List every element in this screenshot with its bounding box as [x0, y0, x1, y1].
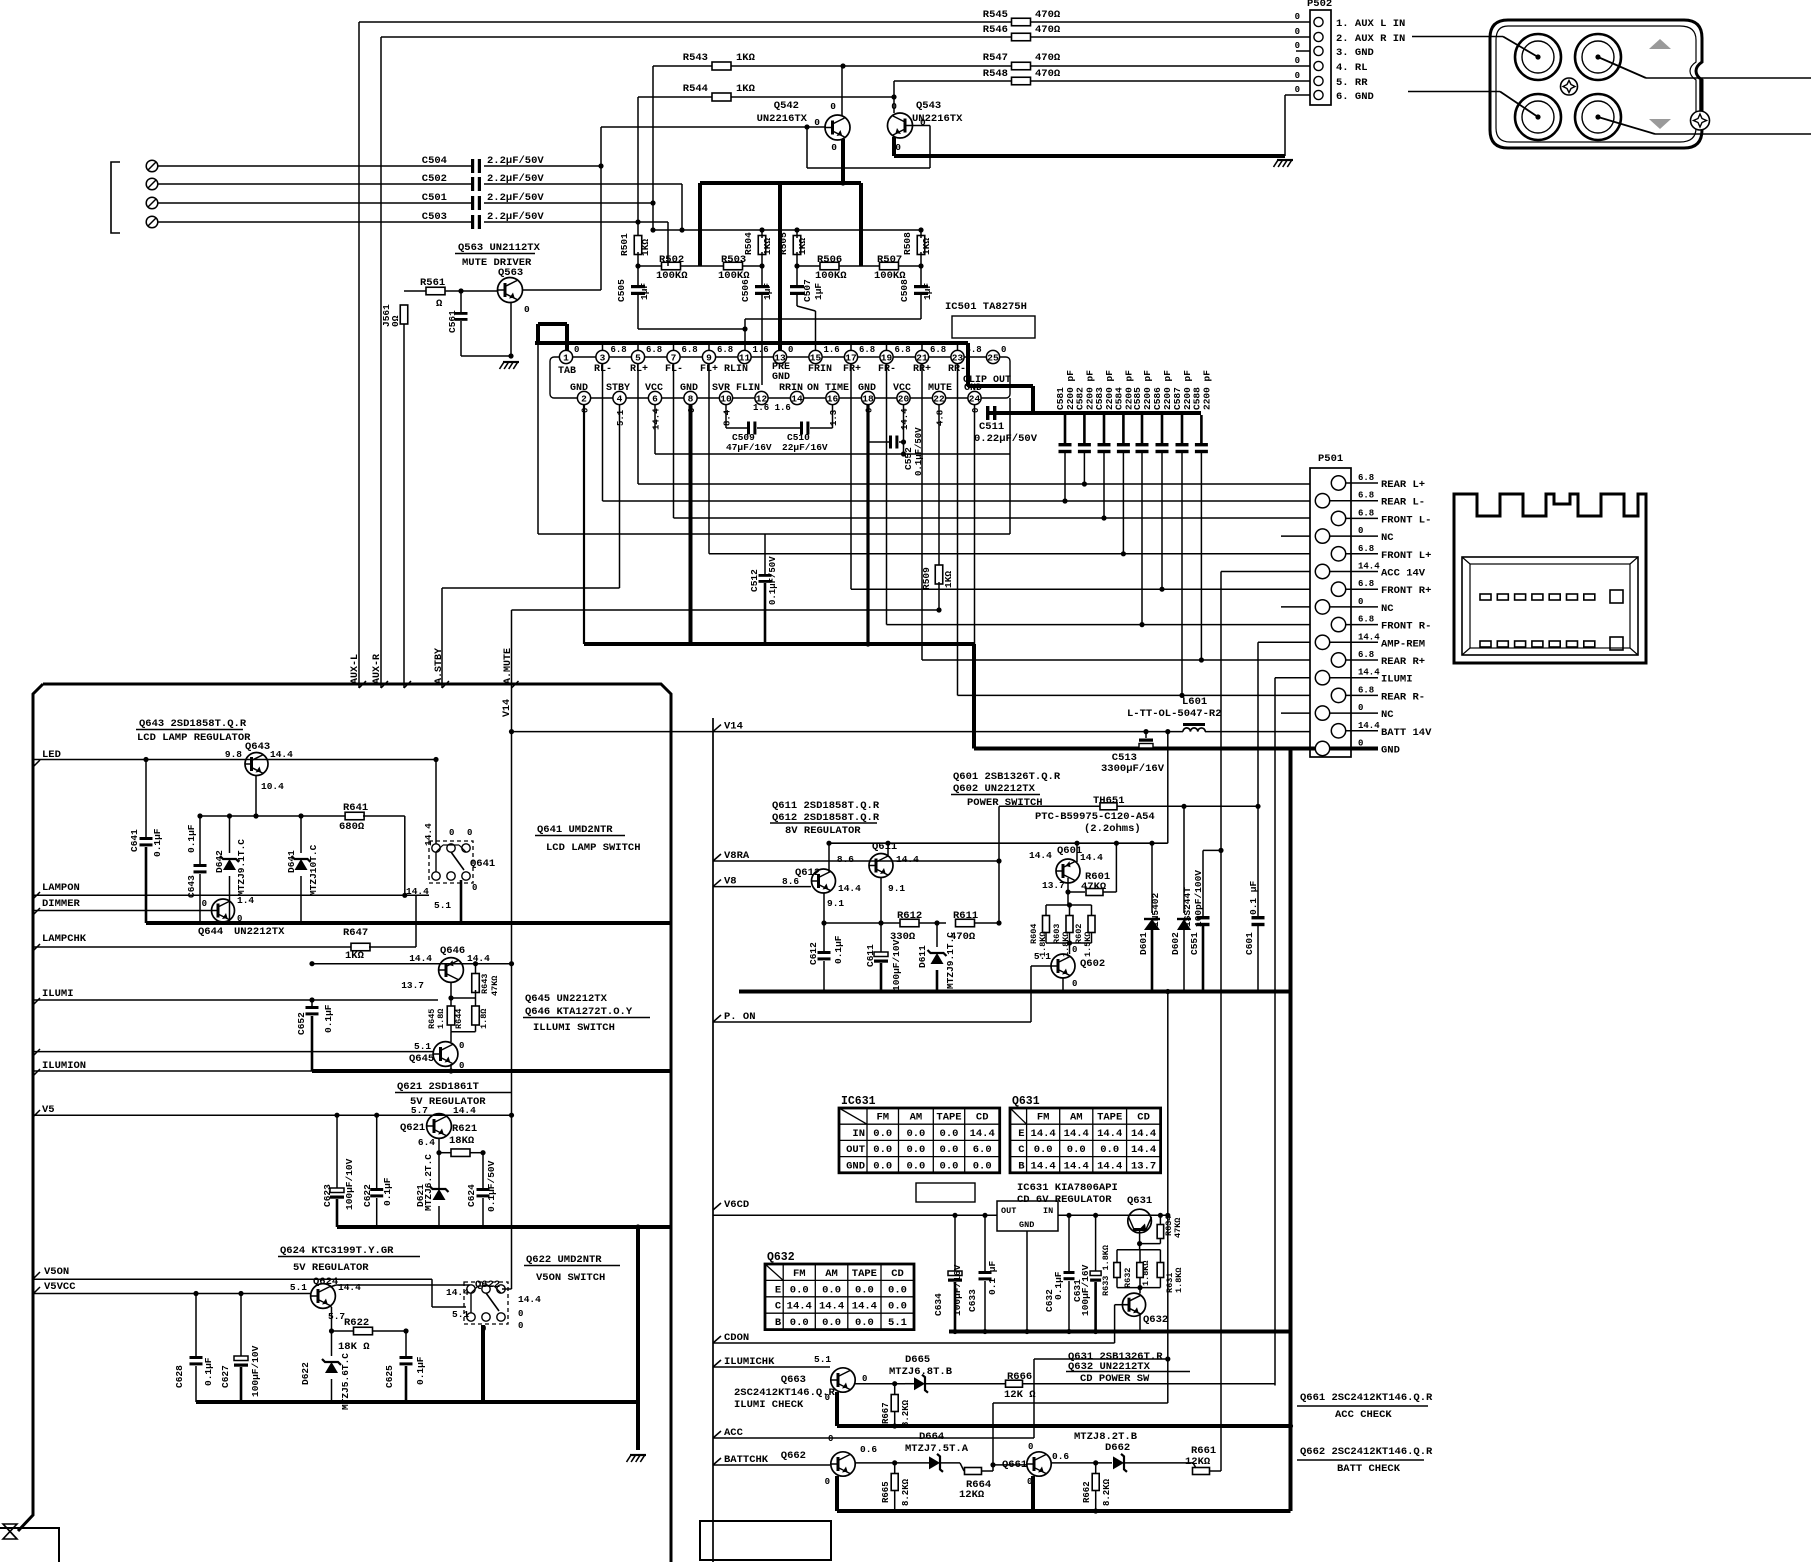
car connector pin [1532, 641, 1543, 647]
svg-text:470Ω: 470Ω [1035, 68, 1061, 80]
svg-text:14.4: 14.4 [518, 1294, 541, 1305]
transistor Q611 [869, 854, 893, 878]
svg-text:1KΩ: 1KΩ [736, 52, 756, 64]
svg-text:8.4: 8.4 [723, 409, 733, 426]
svg-text:Q611 2SD1858T.Q.R: Q611 2SD1858T.Q.R [772, 800, 880, 812]
svg-text:0: 0 [971, 408, 981, 413]
svg-text:C552: C552 [903, 447, 914, 470]
svg-text:470Ω: 470Ω [1035, 9, 1061, 21]
svg-text:2200 pF: 2200 pF [1201, 370, 1212, 410]
svg-text:14.4: 14.4 [270, 749, 293, 760]
svg-text:LCD LAMP REGULATOR: LCD LAMP REGULATOR [137, 732, 251, 744]
svg-text:0.0: 0.0 [873, 1144, 892, 1156]
svg-text:D662: D662 [1105, 1442, 1130, 1454]
svg-text:9.8: 9.8 [225, 749, 242, 760]
pin 12 [755, 391, 768, 404]
svg-text:MTZJ6.8T.B: MTZJ6.8T.B [889, 1366, 953, 1378]
svg-text:0.0: 0.0 [873, 1128, 892, 1140]
resistor R645 [450, 998, 452, 1008]
svg-text:ILLUMI SWITCH: ILLUMI SWITCH [533, 1022, 615, 1034]
wire Q645 emitter [450, 1064, 452, 1071]
switch Q622 [464, 1282, 508, 1324]
diode D641 [300, 816, 302, 853]
wire Q645 collector [450, 1032, 452, 1042]
svg-text:5.7: 5.7 [411, 1105, 428, 1116]
wire Q624 collector [330, 1285, 336, 1287]
wire Q641 bottom [460, 880, 463, 923]
capacitor C624 [482, 1153, 484, 1188]
wire thick GND riser [972, 644, 976, 749]
svg-text:6.8: 6.8 [646, 345, 662, 355]
wire thick ILUMION bus [312, 1069, 671, 1073]
svg-text:11: 11 [739, 352, 751, 363]
svg-text:C622: C622 [362, 1184, 373, 1207]
transistor Q646 [439, 958, 464, 983]
RCA pointer bottom-left [1500, 92, 1538, 118]
svg-text:0: 0 [1358, 703, 1363, 713]
wire thick CD gnd bus [949, 1330, 1291, 1334]
wire output fan [886, 364, 888, 625]
switch Q641 [429, 841, 473, 883]
capacitor C504 [471, 159, 474, 173]
wire thick drop x780 (PRE GND) [778, 183, 782, 351]
svg-text:0.0: 0.0 [1067, 1144, 1086, 1156]
svg-text:5.1: 5.1 [1034, 951, 1051, 962]
connector P501 pin 8 [1315, 600, 1329, 614]
ic IC501 thick top rail [535, 341, 968, 345]
wire pin stub [637, 343, 639, 351]
svg-text:C601: C601 [1244, 932, 1255, 955]
svg-text:R641: R641 [343, 802, 368, 814]
regulator IC631 box [997, 1201, 1058, 1231]
diode D601 [1151, 843, 1153, 913]
capacitor C631 [1095, 1215, 1097, 1271]
svg-text:R507: R507 [877, 254, 902, 266]
svg-text:C551: C551 [1189, 932, 1200, 955]
input terminal 4 [146, 216, 158, 228]
capacitor C641 [145, 760, 147, 838]
svg-text:0: 0 [449, 828, 454, 838]
wire GND to RCA [1408, 91, 1500, 93]
svg-text:C507: C507 [802, 279, 813, 302]
svg-text:ILUMION: ILUMION [42, 1060, 86, 1072]
svg-text:B: B [1018, 1160, 1025, 1172]
wire C501 out [485, 202, 653, 204]
svg-text:GND: GND [1381, 745, 1400, 757]
svg-text:NC: NC [1381, 603, 1394, 615]
svg-text:0: 0 [459, 1041, 464, 1051]
svg-text:5.1: 5.1 [814, 1354, 831, 1365]
net AUX-L vertical [358, 22, 360, 688]
svg-text:0.1µF: 0.1µF [415, 1356, 426, 1385]
box edge middle section [712, 718, 714, 1562]
svg-text:0: 0 [828, 1434, 833, 1444]
svg-text:14.4: 14.4 [446, 1287, 469, 1298]
svg-text:Ω: Ω [436, 298, 443, 310]
svg-text:18K Ω: 18K Ω [338, 1341, 370, 1353]
svg-text:0.6: 0.6 [1052, 1451, 1069, 1462]
svg-text:8.6: 8.6 [837, 854, 854, 865]
car connector pin [1515, 641, 1526, 647]
svg-text:R546: R546 [983, 24, 1008, 36]
svg-text:Q631: Q631 [1012, 1095, 1040, 1108]
svg-text:R612: R612 [897, 910, 922, 922]
svg-text:Q643 2SD1858T.Q.R: Q643 2SD1858T.Q.R [139, 718, 247, 730]
pin 10 [719, 391, 732, 404]
svg-text:0.0: 0.0 [855, 1317, 874, 1329]
net A.STBY [441, 588, 443, 688]
svg-text:12KΩ: 12KΩ [959, 1489, 985, 1501]
net ACC entry [713, 1431, 721, 1438]
resistor R667 [894, 1384, 896, 1395]
capacitor C634 [954, 1215, 956, 1271]
svg-text:0: 0 [788, 345, 793, 355]
label IC631 [916, 1183, 975, 1202]
svg-text:14.4: 14.4 [1031, 1160, 1056, 1172]
svg-text:1.6 1.6: 1.6 1.6 [753, 403, 791, 413]
svg-text:18: 18 [862, 393, 874, 404]
wire Q602 emitter [1062, 978, 1064, 992]
svg-text:1KΩ: 1KΩ [762, 238, 773, 255]
svg-text:1N5402: 1N5402 [1150, 892, 1161, 927]
svg-text:14.4: 14.4 [409, 953, 432, 964]
net CDON entry [713, 1336, 721, 1343]
svg-text:AM: AM [910, 1112, 923, 1124]
svg-text:C652: C652 [296, 1012, 307, 1035]
svg-text:ILUMI: ILUMI [1381, 674, 1413, 686]
svg-text:5.1: 5.1 [452, 1309, 469, 1320]
wire output fan [921, 364, 923, 660]
svg-text:2.2µF/50V: 2.2µF/50V [487, 211, 544, 223]
wire [920, 252, 922, 285]
svg-text:ACC: ACC [724, 1427, 744, 1439]
wire pin stub [850, 343, 852, 351]
svg-text:OUT: OUT [846, 1144, 865, 1156]
resistor R508 [917, 236, 925, 255]
svg-text:E: E [1018, 1128, 1024, 1140]
svg-text:IC631: IC631 [841, 1095, 876, 1108]
svg-text:6. GND: 6. GND [1336, 91, 1374, 103]
svg-text:LAMPCHK: LAMPCHK [42, 933, 87, 945]
transistor Q661 [1027, 1452, 1051, 1476]
svg-text:1KΩ: 1KΩ [921, 238, 932, 255]
svg-text:Q641: Q641 [470, 858, 495, 870]
svg-text:14.4: 14.4 [819, 1301, 844, 1313]
svg-text:FRONT L+: FRONT L+ [1381, 550, 1431, 562]
svg-text:0.0: 0.0 [906, 1160, 925, 1172]
svg-text:V8RA: V8RA [724, 850, 750, 862]
svg-text:V8: V8 [724, 876, 737, 888]
connector P501 pin 10 [1315, 635, 1329, 649]
wire [484, 221, 485, 223]
svg-text:12KΩ: 12KΩ [1185, 1456, 1211, 1468]
svg-text:24: 24 [969, 393, 981, 404]
svg-text:Q662: Q662 [781, 1450, 806, 1462]
svg-text:2.2µF/50V: 2.2µF/50V [487, 192, 544, 204]
svg-text:BATT 14V: BATT 14V [1381, 727, 1432, 739]
pin 17 [844, 350, 857, 363]
wire 14.4 rail [312, 963, 512, 965]
svg-text:Q663: Q663 [781, 1374, 806, 1386]
wire pin10 SVR loop [725, 404, 727, 428]
wire output fan [957, 364, 959, 695]
svg-text:7: 7 [671, 352, 677, 363]
net V8RA entry [713, 854, 721, 861]
resistor R544 [638, 96, 712, 98]
svg-text:P502: P502 [1307, 0, 1332, 10]
wire pin stub [921, 343, 923, 351]
svg-text:C634: C634 [933, 1293, 944, 1316]
svg-text:0.1µF: 0.1µF [1053, 1271, 1064, 1300]
svg-text:1.4: 1.4 [237, 895, 254, 906]
car connector pin [1584, 594, 1595, 600]
wire [637, 97, 639, 238]
svg-text:Q624 KTC3199T.Y.GR: Q624 KTC3199T.Y.GR [280, 1245, 394, 1257]
wire thick bottom bus [837, 1509, 1291, 1513]
svg-text:14.4: 14.4 [970, 1128, 995, 1140]
wire Q621 emitter [438, 1138, 440, 1188]
pin 1 [559, 350, 572, 363]
svg-text:C505: C505 [616, 279, 627, 302]
wire ACC entry [713, 1437, 1034, 1439]
connector P501 pin 1 [1331, 476, 1345, 490]
svg-text:6.8: 6.8 [966, 345, 982, 355]
svg-text:C641: C641 [129, 829, 140, 852]
svg-text:IN: IN [852, 1128, 865, 1140]
car connector pin [1584, 641, 1595, 647]
svg-text:8.2KΩ: 8.2KΩ [901, 1478, 911, 1506]
svg-text:0: 0 [1028, 1442, 1033, 1452]
svg-text:13.7: 13.7 [1042, 880, 1065, 891]
wire Q601 collector [1076, 843, 1078, 862]
wire AMP-REM [1258, 641, 1310, 643]
svg-text:R502: R502 [659, 254, 684, 266]
svg-text:0.1µF: 0.1µF [203, 1357, 214, 1386]
wire [158, 183, 471, 185]
svg-text:14.4: 14.4 [1131, 1144, 1156, 1156]
svg-text:BATTCHK: BATTCHK [724, 1454, 769, 1466]
capacitor C625 [405, 1331, 407, 1356]
svg-text:14.4: 14.4 [423, 823, 434, 846]
svg-text:FM: FM [876, 1112, 889, 1124]
svg-text:AM: AM [825, 1268, 838, 1280]
resistor R505 [793, 236, 801, 255]
svg-text:0.0: 0.0 [822, 1284, 841, 1296]
svg-text:14.4: 14.4 [1358, 632, 1380, 642]
pin 18 [861, 391, 874, 404]
car connector pin [1497, 641, 1508, 647]
svg-text:6.8: 6.8 [1358, 615, 1374, 625]
svg-text:1µF: 1µF [922, 283, 933, 300]
svg-text:0: 0 [891, 101, 897, 112]
svg-text:14.4: 14.4 [1358, 562, 1380, 572]
svg-text:100µF/10V: 100µF/10V [891, 939, 902, 991]
svg-text:0: 0 [1295, 41, 1300, 51]
RCA jack [1575, 94, 1621, 140]
svg-text:IN: IN [1043, 1206, 1053, 1216]
svg-text:0: 0 [467, 828, 472, 838]
connector P501 pin 5 [1331, 547, 1345, 561]
wire output fan [602, 364, 604, 501]
svg-text:Q643: Q643 [245, 741, 270, 753]
svg-text:TAPE: TAPE [1097, 1112, 1122, 1124]
svg-text:14.4: 14.4 [453, 1105, 476, 1116]
capacitor C561 [460, 291, 462, 312]
wire thick GND drop right [1289, 749, 1293, 992]
svg-text:Q644: Q644 [198, 926, 223, 938]
capacitor C582 [1083, 415, 1086, 443]
wire pin stub [673, 343, 675, 351]
svg-text:2. AUX R IN: 2. AUX R IN [1336, 33, 1405, 45]
net BATTCHK entry [713, 1458, 721, 1465]
wire thick 5V gnd bus [337, 1225, 671, 1229]
pin 4 [613, 391, 626, 404]
svg-text:8.2KΩ: 8.2KΩ [901, 1399, 911, 1427]
svg-text:5.1: 5.1 [434, 900, 451, 911]
svg-text:NC: NC [1381, 532, 1394, 544]
title box bottom center [700, 1521, 831, 1560]
svg-text:0: 0 [1295, 27, 1300, 37]
wire x1167 lower [1167, 992, 1169, 1404]
svg-text:MTZJ9.1T.C: MTZJ9.1T.C [945, 932, 956, 989]
svg-text:BATT CHECK: BATT CHECK [1337, 1463, 1401, 1475]
wire [1205, 731, 1310, 733]
screw center [1561, 78, 1578, 95]
svg-text:22: 22 [933, 393, 945, 404]
capacitor C588 [1200, 415, 1203, 443]
resistor group R633 R632 R631 [1117, 1249, 1160, 1251]
svg-text:4: 4 [617, 393, 623, 404]
svg-text:0: 0 [518, 1321, 523, 1331]
svg-text:Q542: Q542 [774, 100, 799, 112]
svg-text:D622: D622 [300, 1362, 311, 1385]
capacitor C601 [1257, 806, 1259, 916]
capacitor C584 [1122, 415, 1125, 443]
wire [158, 202, 471, 204]
svg-text:C628: C628 [174, 1365, 185, 1388]
svg-text:Q646: Q646 [440, 945, 465, 957]
svg-text:0.1µF: 0.1µF [833, 935, 844, 964]
svg-text:0: 0 [830, 101, 836, 112]
ground [630, 1454, 646, 1456]
pin 22 [932, 391, 945, 404]
resistor R611 [956, 919, 975, 927]
svg-text:D611: D611 [917, 945, 928, 968]
capacitor C502 [471, 177, 474, 191]
svg-text:14.4: 14.4 [1031, 1128, 1056, 1140]
svg-text:0: 0 [1358, 597, 1363, 607]
svg-text:5V REGULATOR: 5V REGULATOR [293, 1262, 369, 1274]
svg-text:D664: D664 [919, 1431, 944, 1443]
resistor R664 [960, 1463, 964, 1471]
wire thick staircase [538, 322, 567, 326]
svg-text:R547: R547 [983, 52, 1008, 64]
transistor Q624 [311, 1284, 336, 1309]
svg-text:0.0: 0.0 [888, 1301, 907, 1313]
svg-text:Q601: Q601 [1057, 845, 1082, 857]
pin 15 [809, 350, 822, 363]
capacitor C612 [818, 951, 831, 954]
wire Q563 collector [522, 289, 601, 291]
wire Q563 emitter [510, 302, 512, 356]
svg-text:OUT: OUT [1001, 1206, 1016, 1216]
wire AUX R IN to RCA [1412, 36, 1503, 38]
capacitor C583 [1103, 415, 1106, 443]
wire pin20 VCC drop [903, 404, 905, 454]
svg-text:3: 3 [600, 352, 606, 363]
diode D602 [1183, 806, 1185, 913]
svg-text:LAMPON: LAMPON [42, 882, 80, 894]
svg-text:1KΩ: 1KΩ [736, 83, 756, 95]
svg-text:C: C [775, 1301, 782, 1313]
svg-text:0.0: 0.0 [790, 1317, 809, 1329]
svg-text:R561: R561 [420, 277, 445, 289]
resistor R501 [634, 236, 642, 255]
svg-text:5.1: 5.1 [616, 409, 626, 426]
svg-text:2: 2 [581, 393, 587, 404]
svg-text:Q612 2SD1858T.Q.R: Q612 2SD1858T.Q.R [772, 812, 880, 824]
transistor Q631 [1128, 1209, 1152, 1233]
svg-text:D602: D602 [1170, 932, 1181, 955]
wire Q663 emitter thick [835, 1392, 839, 1426]
transistor Q632 [1122, 1293, 1145, 1316]
svg-text:D601: D601 [1138, 932, 1149, 955]
resistor R634 [1159, 1215, 1161, 1226]
svg-text:0: 0 [1358, 739, 1363, 749]
svg-text:C504: C504 [422, 155, 447, 167]
svg-text:Q661 2SC2412KT146.Q.R: Q661 2SC2412KT146.Q.R [1300, 1392, 1433, 1404]
svg-text:MTZJ7.5T.A: MTZJ7.5T.A [905, 1443, 969, 1455]
connector P501 pin 11 [1331, 653, 1345, 667]
svg-text:0: 0 [1295, 12, 1300, 22]
connector P501 pin 3 [1331, 511, 1345, 525]
svg-text:R508: R508 [902, 232, 913, 255]
car connector pin [1497, 594, 1508, 600]
svg-text:1µF: 1µF [639, 283, 650, 300]
svg-text:6.8: 6.8 [682, 345, 698, 355]
svg-text:100KΩ: 100KΩ [656, 270, 688, 282]
svg-text:0: 0 [1295, 85, 1300, 95]
wire gnd bus [894, 154, 1285, 158]
pin 20 [897, 391, 910, 404]
svg-text:Q645 UN2212TX: Q645 UN2212TX [525, 993, 608, 1005]
svg-text:R545: R545 [983, 9, 1008, 21]
svg-text:6.8: 6.8 [1358, 650, 1374, 660]
input terminal 1 [146, 160, 158, 172]
svg-text:5: 5 [635, 352, 641, 363]
wire Q661 collector [1051, 1462, 1112, 1464]
svg-text:14.4: 14.4 [787, 1301, 812, 1313]
svg-text:14.4: 14.4 [852, 1301, 877, 1313]
svg-text:C506: C506 [740, 279, 751, 302]
svg-text:R611: R611 [953, 910, 978, 922]
wire [484, 165, 485, 167]
wire pin16 drop [832, 404, 834, 428]
svg-text:Q563 UN2112TX: Q563 UN2112TX [458, 242, 541, 254]
svg-text:1.6: 1.6 [753, 345, 769, 355]
svg-text:10.4: 10.4 [261, 781, 284, 792]
wire V5ON jog [431, 1279, 433, 1307]
pin 19 [880, 350, 893, 363]
capacitor C552 [868, 441, 889, 443]
resistor R509 [935, 565, 943, 584]
net ILUMICHK entry [713, 1360, 721, 1367]
svg-text:14.4: 14.4 [1064, 1128, 1089, 1140]
resistor R546 [381, 36, 1012, 38]
wire jog [893, 81, 895, 113]
svg-text:2SC2412KT146.Q.R: 2SC2412KT146.Q.R [734, 1387, 836, 1399]
svg-text:680Ω: 680Ω [339, 821, 365, 833]
